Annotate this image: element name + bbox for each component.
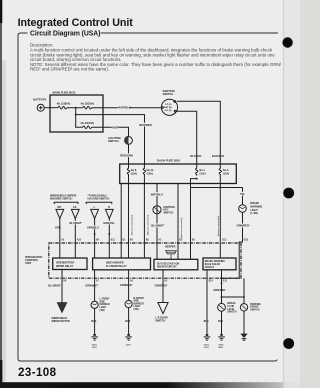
brake fluid level switch: [218, 303, 226, 311]
svg-text:G401: G401: [204, 346, 210, 349]
svg-text:A18: A18: [77, 238, 82, 241]
svg-text:SWITCH: SWITCH: [250, 310, 260, 312]
integrated control unit boundary: [49, 243, 241, 278]
R front side marker light: [125, 300, 132, 307]
junction node on horizontal feed: [219, 187, 221, 189]
label WHT: [112, 125, 119, 129]
wire branch to parking brake switch: [222, 278, 245, 303]
svg-text:BLK: BLK: [204, 320, 209, 323]
svg-text:WHT/BLU: WHT/BLU: [151, 192, 163, 196]
svg-text:(4W): (4W): [100, 309, 105, 312]
svg-text:23-108: 23-108: [18, 366, 57, 379]
svg-text:RED/GRN: RED/GRN: [120, 154, 132, 158]
ground G401 mid: [204, 334, 211, 340]
label WHT/BLU key: [150, 192, 163, 196]
junction node main fuse: [75, 107, 77, 109]
svg-text:(4W): (4W): [134, 308, 139, 311]
wire YEL down to brake warning light: [242, 188, 244, 205]
intermittent wiper relay box: [53, 258, 87, 270]
top pin labels: [61, 238, 249, 241]
svg-text:AS: AS: [73, 206, 77, 209]
bottom scan edge: [0, 382, 300, 388]
svg-text:WHT/RED: WHT/RED: [139, 123, 152, 127]
svg-text:BLK/YEL: BLK/YEL: [190, 154, 202, 158]
battery B1: [37, 104, 44, 111]
svg-text:FLASHER RELAY: FLASHER RELAY: [106, 265, 127, 268]
description paragraph: [30, 43, 282, 72]
outer rounded box of Circuit Diagram section: [18, 33, 277, 361]
svg-text:SIDE: SIDE: [100, 301, 106, 303]
fuse No.21 (80A): [58, 106, 67, 109]
svg-text:BEEPER CIRCUIT: BEEPER CIRCUIT: [157, 266, 177, 268]
svg-text:GRN: GRN: [55, 226, 61, 230]
ground G201: [125, 334, 132, 340]
svg-text:SWITCH: SWITCH: [108, 139, 119, 143]
ground designations: [92, 344, 225, 350]
svg-text:MARKER: MARKER: [134, 302, 145, 305]
wiper switch bar: [54, 202, 78, 204]
svg-text:BLU/WHT²: BLU/WHT²: [151, 224, 164, 228]
label YEL: [239, 192, 245, 196]
wire seat belt circuit to door switch A2: [162, 270, 164, 303]
junction node brake branch: [221, 296, 223, 298]
label WHT/RED: [139, 123, 152, 127]
svg-text:G401: G401: [92, 346, 98, 349]
ignition key switch: [153, 206, 161, 214]
svg-text:GRN/RED¹: GRN/RED¹: [237, 224, 250, 228]
svg-text:GRN/RED: GRN/RED: [213, 288, 225, 292]
wire GRN/BLU pin B4: [94, 218, 96, 243]
svg-text:BLK: BLK: [125, 320, 130, 323]
svg-text:BRAKE WARNING: BRAKE WARNING: [205, 260, 225, 263]
svg-text:No.32(50A): No.32(50A): [81, 101, 95, 105]
ground G402: [218, 334, 225, 340]
svg-text:BATTERY: BATTERY: [33, 97, 46, 101]
svg-text:(Interior connection): (Interior connection): [130, 214, 133, 235]
page right edge shading: [283, 0, 300, 388]
wire B8 column RED/GRN: [128, 184, 130, 244]
svg-text:PARKING: PARKING: [250, 303, 261, 306]
wire horizontal feed to brake warning light: [191, 187, 243, 189]
svg-text:INT: INT: [57, 206, 62, 209]
label RED/GRN: [120, 153, 133, 157]
dash fuse box: [120, 164, 237, 184]
svg-text:B12: B12: [222, 239, 227, 241]
LR door switch: [158, 303, 168, 314]
svg-text:WHT/BLU: WHT/BLU: [118, 106, 130, 110]
svg-text:SIDE: SIDE: [134, 301, 140, 303]
svg-text:No.21(80A): No.21(80A): [57, 101, 71, 105]
turn switch L contact: [91, 209, 99, 218]
svg-text:SWITCH: SWITCH: [163, 92, 174, 96]
wire B10 into bulb check: [219, 243, 221, 258]
svg-text:B14: B14: [209, 280, 214, 283]
svg-text:BRAKE: BRAKE: [227, 302, 236, 305]
wiper switch INT contact: [56, 209, 64, 218]
svg-text:CIRCUIT: CIRCUIT: [205, 267, 215, 269]
beeper symbol: [166, 250, 177, 259]
svg-text:G402: G402: [218, 344, 224, 347]
svg-text:(Interior connection): (Interior connection): [217, 215, 220, 236]
wire GRN/YEL pin B11: [108, 218, 110, 243]
svg-text:BLU/WHT¹: BLU/WHT¹: [70, 221, 83, 225]
wire flasher relay to L side marker A7: [94, 270, 96, 301]
fuse No.2: [219, 164, 221, 184]
junction node parking: [243, 296, 245, 298]
wire B5 column: [177, 184, 179, 244]
svg-text:WIPER MOTOR: WIPER MOTOR: [52, 320, 70, 323]
svg-text:SWITCH: SWITCH: [155, 320, 165, 323]
svg-text:BLK: BLK: [218, 320, 223, 323]
wire dash fuse to ignition key switch WHT/BLU: [156, 184, 158, 244]
wire BLK/YEL ignition to dash fuse box: [176, 111, 196, 164]
svg-text:(10A): (10A): [147, 172, 153, 175]
wire fuse2 down B10: [219, 184, 221, 244]
label BLU/WHT2: [151, 224, 165, 228]
svg-text:R: R: [108, 206, 110, 209]
fuse No.1: [196, 164, 198, 176]
fuse No.8: [127, 164, 129, 184]
turn signal switch bar: [86, 202, 112, 204]
svg-text:G401: G401: [92, 344, 98, 347]
svg-text:BAT (4): BAT (4): [164, 106, 172, 109]
lighting switch: [125, 137, 133, 145]
wire wiper relay to wiper motor A8: [61, 270, 63, 303]
svg-text:BLK/WHT: BLK/WHT: [212, 154, 225, 158]
svg-text:G401: G401: [204, 344, 210, 347]
wires pins into seat belt circuit: [157, 243, 191, 259]
wire battery to main fuse box: [44, 107, 58, 109]
svg-text:SWITCH: SWITCH: [163, 212, 173, 215]
svg-text:MAIN FUSE BOX: MAIN FUSE BOX: [53, 91, 76, 95]
wire GRN/RED1 into ICU to bulb check circuit: [221, 212, 242, 278]
fuse No.33 (40A): [83, 126, 92, 129]
svg-text:LIGHT: LIGHT: [134, 306, 142, 308]
svg-text:(15A): (15A): [223, 172, 229, 175]
svg-text:(Interior connection): (Interior connection): [146, 214, 149, 235]
wires pins into flasher relay: [95, 243, 145, 258]
windshield wiper motor: [57, 303, 67, 313]
svg-text:BEEPER: BEEPER: [165, 245, 175, 248]
wire B14 GRN/RED to brake fluid switch: [221, 270, 223, 304]
svg-text:No.33(40A): No.33(40A): [81, 121, 95, 125]
svg-text:BULB CHECK: BULB CHECK: [205, 264, 221, 266]
svg-text:ST (2): ST (2): [165, 104, 171, 106]
wire BLK R marker to ground: [128, 308, 130, 335]
svg-text:WASHER SWITCH: WASHER SWITCH: [50, 197, 72, 201]
wire bulb check to ground BLK: [206, 270, 208, 335]
brake warning light bulb: [239, 205, 247, 213]
svg-text:(10A): (10A): [199, 172, 205, 175]
svg-text:B11: B11: [111, 239, 116, 241]
junction node fuse1 output: [196, 178, 198, 180]
label BLU/WHT1: [69, 221, 82, 225]
svg-text:GRN/WHT¹: GRN/WHT¹: [85, 284, 98, 288]
hole punch dot bottom: [283, 338, 294, 349]
svg-text:GRN/RED¹: GRN/RED¹: [120, 283, 133, 287]
wire RED/GRN lighting switch to dash fuse box: [128, 144, 130, 164]
svg-text:Circuit Diagram (USA): Circuit Diagram (USA): [30, 31, 100, 38]
svg-text:(Interior connection): (Interior connection): [180, 217, 183, 238]
wire B9 column WHT/RED: [143, 184, 145, 244]
wire WHT/BLU to ignition switch: [92, 107, 162, 109]
svg-text:FLUID: FLUID: [227, 306, 234, 308]
wires pins into wiper relay: [60, 243, 76, 258]
svg-text:SEAT BELT/KEY-ON: SEAT BELT/KEY-ON: [157, 262, 179, 265]
wiper switch AS contact: [71, 209, 79, 218]
wire WHT/RED branch to dash fuse box: [76, 115, 145, 164]
wire GRN pin A5: [59, 218, 61, 243]
wire junction drop to fuse33: [76, 108, 83, 128]
wire B1 column: [120, 184, 122, 244]
svg-text:IG1 (3): IG1 (3): [165, 110, 172, 112]
svg-text:GRN/BLU: GRN/BLU: [87, 226, 99, 230]
junction node WHT/RED tap: [75, 114, 77, 116]
svg-text:MARKER: MARKER: [100, 303, 111, 306]
svg-text:BLU/WHT¹: BLU/WHT¹: [48, 284, 61, 288]
svg-text:G201: G201: [126, 345, 132, 347]
hole punch dot top: [282, 37, 292, 47]
svg-text:B13: B13: [244, 239, 249, 241]
svg-text:R.FRONT: R.FRONT: [134, 298, 145, 300]
svg-text:GRN/YEL: GRN/YEL: [103, 221, 115, 225]
svg-text:WHT: WHT: [112, 125, 118, 129]
svg-text:(1.4W): (1.4W): [250, 212, 258, 215]
label WHT/BLU: [118, 106, 131, 110]
bottom pin labels: [63, 280, 228, 283]
svg-text:B12: B12: [223, 281, 228, 283]
svg-text:RED¹ and GRN/RED² are not the: RED¹ and GRN/RED² are not the same).: [30, 67, 109, 72]
svg-text:LEVEL: LEVEL: [227, 309, 235, 311]
wire fuse21 to fuse32: [67, 107, 83, 109]
svg-text:SWITCH: SWITCH: [227, 312, 237, 314]
fuse No.32 (50A): [83, 106, 92, 109]
wire parking brake to body ground: [243, 311, 245, 334]
fuse No.12: [143, 164, 145, 184]
body ground parking: [241, 334, 247, 340]
svg-text:S401: S401: [218, 346, 224, 349]
label GRN/RED1 brake light: [236, 224, 250, 228]
svg-text:WIPER RELAY: WIPER RELAY: [56, 265, 73, 268]
junction node bulb check output: [220, 277, 222, 279]
svg-text:BLK: BLK: [91, 320, 96, 323]
L front side marker light: [91, 301, 98, 308]
ground G401 left: [91, 334, 98, 340]
svg-text:BRAKE: BRAKE: [250, 306, 259, 309]
svg-text:GRN/RED²: GRN/RED²: [155, 284, 168, 288]
label BLK wires: [91, 320, 223, 323]
turn switch R contact: [105, 209, 113, 218]
svg-text:HAZARD SWITCH: HAZARD SWITCH: [88, 197, 110, 201]
svg-text:DASH FUSE BOX: DASH FUSE BOX: [157, 159, 180, 163]
wire BLK L marker to ground: [94, 308, 96, 334]
side marker flasher relay box: [93, 258, 151, 270]
hole punch dot middle: [283, 188, 294, 199]
wire flasher relay to R side marker A6: [128, 270, 130, 301]
svg-text:(10A): (10A): [131, 172, 137, 175]
wire BLK/WHT ignition to dash fuse box: [177, 101, 221, 164]
svg-text:L.FRONT: L.FRONT: [100, 299, 111, 301]
wire BLU/WHT1 pin A18: [74, 218, 76, 243]
label GRN/YEL: [103, 221, 115, 225]
left scan edge: [0, 0, 2, 388]
seat belt key-on beeper circuit box: [154, 259, 198, 270]
svg-text:Integrated Control Unit: Integrated Control Unit: [18, 17, 134, 29]
junction node pin B12 wire: [221, 282, 223, 284]
junction node turn R: [108, 233, 110, 235]
svg-text:UNIT: UNIT: [25, 261, 32, 265]
wire fuse1 branch left and down pin B6: [191, 179, 197, 243]
ignition switch: [161, 99, 177, 115]
svg-text:LIGHT: LIGHT: [100, 307, 108, 309]
parking brake switch: [240, 304, 247, 311]
junction node turn L: [94, 233, 96, 235]
wire BLK brake fluid to ground: [221, 311, 223, 334]
wire WHT to lighting switch: [92, 127, 129, 136]
svg-text:YEL: YEL: [240, 192, 246, 196]
brake warning bulb check circuit box: [203, 258, 236, 270]
label GRN/BLU: [87, 226, 99, 230]
main fuse box: [50, 95, 103, 132]
